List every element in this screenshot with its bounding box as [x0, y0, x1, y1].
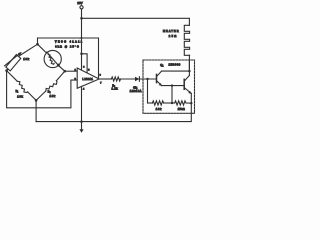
wire supply vertical to junction [81, 9, 83, 18]
svg-text:5: 5 [88, 69, 90, 71]
op-amp U1 LM311 [75, 66, 103, 90]
wire top rail to heater [82, 18, 190, 25]
thermistor T1 (VECO 41A11) [38, 40, 83, 71]
svg-text:R₂: R₂ [48, 92, 51, 94]
node bridge top [36, 43, 39, 46]
wire ground rail [36, 103, 191, 121]
svg-text:10k: 10k [17, 95, 23, 98]
wire balance pin 5 branch [82, 54, 88, 73]
node collector junction [188, 70, 190, 72]
resistor R1 10k (bridge lower-left) [7, 71, 36, 101]
node base resistor junction [146, 78, 148, 80]
wire Q1a collector rail [162, 70, 190, 72]
svg-text:8: 8 [83, 66, 85, 68]
wire arm to set-point resistor [19, 44, 38, 56]
svg-text:1N914A: 1N914A [130, 90, 142, 93]
resistor 10k (base-emitter Q1a) [152, 101, 163, 111]
transistor Q1a [157, 71, 163, 86]
svg-text:LM311: LM311 [82, 77, 93, 81]
svg-text:Q₁: Q₁ [160, 63, 163, 67]
wire Q1a emitter to Q1b base [162, 85, 184, 87]
diode CR1 1N914A [130, 77, 142, 93]
svg-text:6kΩ @ 25°C: 6kΩ @ 25°C [55, 47, 79, 49]
node bridge bottom [35, 99, 38, 102]
resistor 150 ohm (base-emitter Q1b) [175, 101, 186, 111]
svg-text:10k: 10k [50, 95, 56, 98]
label Q1 2N6069 [160, 63, 181, 67]
node junction V+ [80, 17, 83, 20]
node bridge left [5, 69, 8, 72]
svg-text:10k: 10k [23, 57, 29, 61]
svg-text:6: 6 [100, 75, 102, 77]
wire box to bridge left [7, 69, 8, 70]
wire junction down to resistors [171, 86, 173, 103]
svg-text:4: 4 [83, 89, 85, 91]
wire bridge left to inverting input [7, 71, 78, 108]
svg-text:7: 7 [100, 83, 102, 85]
wire bridge bottom to ground rail [35, 100, 37, 121]
svg-text:28V: 28V [77, 1, 82, 5]
wire Q1b emitter down [190, 93, 192, 103]
svg-text:R₁: R₁ [16, 91, 19, 93]
svg-text:25Ω: 25Ω [169, 35, 177, 38]
wire ground pin 4 [81, 86, 83, 121]
wire bridge-top rail to pin 6 [38, 38, 99, 77]
wire op-amp output [99, 78, 111, 80]
wire bridge right to non-inverting input [65, 70, 77, 72]
wire diode to base [139, 78, 156, 80]
wire supply vertical down to op-amp [81, 18, 83, 54]
svg-text:10k: 10k [156, 108, 162, 111]
Darlington dashed package outline [143, 60, 195, 113]
node emitter resistor junction [190, 102, 192, 104]
wire bridge top stub [37, 38, 39, 44]
svg-text:VECO 41A11: VECO 41A11 [55, 40, 83, 43]
node resistor mid junction [171, 102, 173, 104]
wire base junction down [147, 79, 149, 103]
resistor set-point 10k (box style, adjustable) [5, 52, 30, 71]
node rail junction [81, 37, 83, 39]
wire mid [164, 102, 175, 104]
ground [79, 122, 83, 133]
node emitter-base junction [171, 84, 173, 86]
resistor heater 25 ohm [184, 25, 189, 55]
node 28V supply terminal [77, 1, 83, 9]
resistor R2 10k (bridge lower-right) [36, 71, 65, 100]
svg-text:150Ω: 150Ω [178, 108, 185, 111]
transistor Q1b [184, 75, 192, 94]
svg-text:1.2k: 1.2k [112, 88, 119, 91]
svg-text:HEATER: HEATER [163, 30, 179, 33]
wire resistor to diode [120, 78, 135, 80]
node ground rail junction [80, 120, 83, 123]
wire resistor to emitter node [186, 102, 191, 104]
wire Q1b collector up [188, 60, 190, 75]
wire V+ pin 8 [81, 54, 83, 70]
node balance junction [80, 53, 83, 56]
svg-text:2N6069: 2N6069 [169, 65, 181, 67]
wire heater to collector node [188, 55, 190, 71]
wire resistor rail left [148, 102, 153, 104]
resistor R5 1.2k [111, 77, 120, 91]
node bridge right [64, 70, 67, 73]
